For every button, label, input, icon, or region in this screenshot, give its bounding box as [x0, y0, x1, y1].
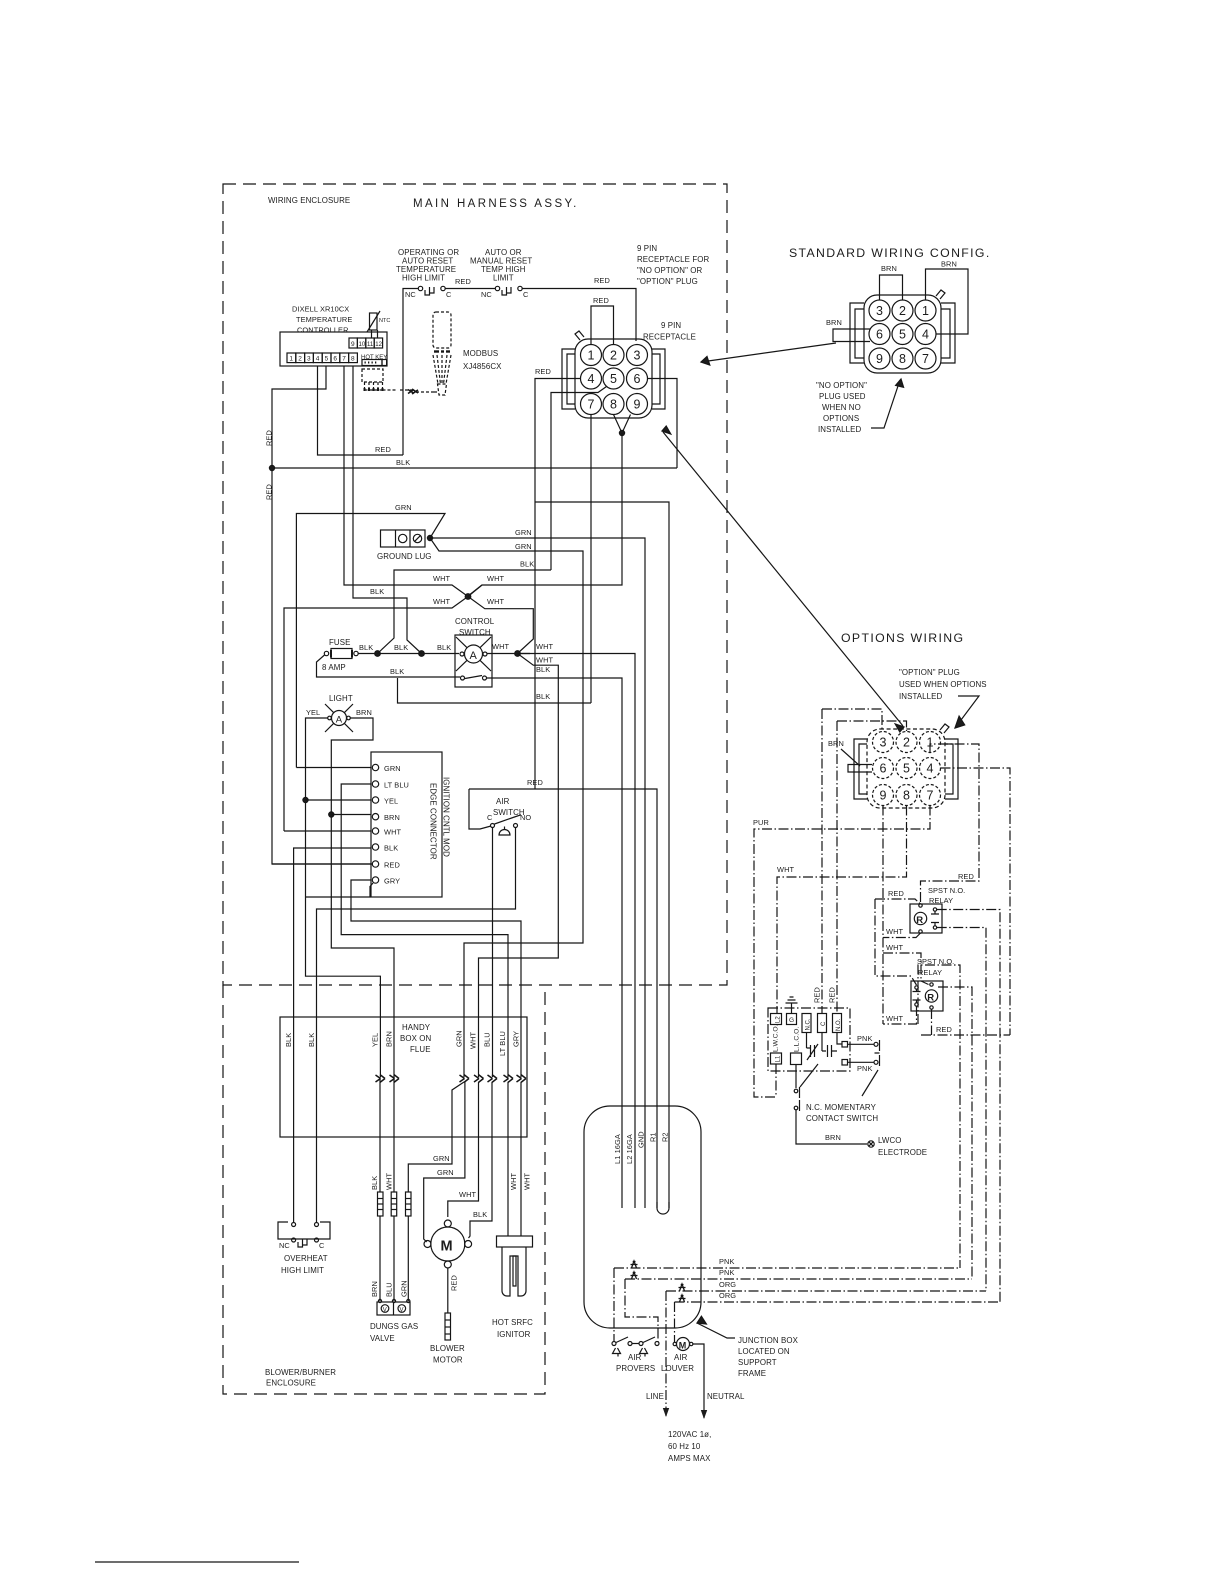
hot surface ignitor body — [497, 1236, 533, 1296]
wire dashed riser to pin2 — [837, 721, 907, 1014]
svg-text:2: 2 — [899, 304, 906, 318]
wire valve WHT lead lower — [393, 1216, 395, 1301]
svg-text:RED: RED — [527, 778, 543, 787]
svg-text:WHT: WHT — [536, 656, 554, 665]
svg-text:L.L.C.O.: L.L.C.O. — [794, 1027, 801, 1052]
svg-text:R2: R2 — [661, 1132, 670, 1142]
wire BRN jumper pins 3-2 — [880, 275, 903, 300]
svg-text:LOUVER: LOUVER — [661, 1364, 694, 1373]
junction node pins 8-9 — [619, 430, 624, 435]
svg-text:WHT: WHT — [886, 943, 904, 952]
leader junction box note — [697, 1316, 735, 1338]
svg-text:GRN: GRN — [515, 528, 532, 537]
svg-text:LT BLU: LT BLU — [498, 1031, 507, 1056]
svg-text:5: 5 — [899, 328, 906, 342]
wire air switch C down to BLU column — [492, 828, 494, 1077]
svg-text:HOT SRFC: HOT SRFC — [492, 1318, 533, 1327]
svg-text:PNK: PNK — [719, 1268, 735, 1277]
svg-text:WHT: WHT — [536, 642, 554, 651]
svg-text:BLK: BLK — [359, 643, 373, 652]
wire PNK top contact — [848, 1043, 874, 1045]
svg-text:R: R — [927, 992, 934, 1003]
svg-text:NC: NC — [405, 290, 416, 299]
wire left branch to K2 contact — [875, 899, 917, 985]
svg-text:BRN: BRN — [825, 1133, 841, 1142]
arrow NEUTRAL down — [701, 1410, 707, 1419]
wire node to L2 run (WHT) — [518, 654, 636, 1209]
wire GRN splice jog to valve column — [408, 1082, 464, 1192]
wire pin5 diagonal to drop — [551, 387, 607, 571]
svg-text:BLK: BLK — [536, 665, 550, 674]
svg-text:9: 9 — [876, 352, 883, 366]
svg-text:RED: RED — [384, 861, 400, 870]
svg-text:FLUE: FLUE — [410, 1045, 431, 1054]
svg-text:BLK: BLK — [384, 844, 398, 853]
LWCO L2 terminal — [771, 1014, 782, 1025]
svg-text:7: 7 — [922, 352, 929, 366]
svg-text:WHT: WHT — [459, 1190, 477, 1199]
momentary contact circles and actuator — [874, 1040, 880, 1066]
wire ORG2 run to louver — [675, 1302, 1001, 1342]
svg-text:BLK: BLK — [473, 1210, 487, 1219]
junction node b — [419, 651, 425, 657]
label OPERATING OR AUTO RESET TEMPERATURE HIGH LIMIT — [396, 248, 459, 283]
svg-text:M: M — [441, 1239, 453, 1255]
svg-text:GRN: GRN — [395, 503, 412, 512]
junction box R1-R2 loop — [657, 1208, 669, 1214]
wire L1 to PUR — [775, 1064, 777, 1097]
svg-text:CONTROL: CONTROL — [455, 617, 495, 626]
wire K2 coil bottom RED — [921, 1009, 1010, 1035]
svg-text:GRN: GRN — [384, 764, 401, 773]
svg-text:BRN: BRN — [370, 1281, 379, 1297]
splice connector valve BLK — [378, 1192, 384, 1216]
svg-text:2: 2 — [610, 349, 617, 363]
svg-text:PNK: PNK — [719, 1257, 735, 1266]
svg-text:120VAC 1ø,: 120VAC 1ø, — [668, 1430, 711, 1439]
svg-text:WHT: WHT — [384, 828, 402, 837]
wire WHT lower left to crossing — [284, 597, 468, 832]
wire valve BLK lead lower — [379, 1216, 381, 1301]
svg-text:C: C — [821, 1021, 827, 1026]
svg-text:WHT: WHT — [777, 865, 795, 874]
wire option pin1 RED to relay1 — [921, 744, 980, 904]
controller leads marks under connector — [365, 388, 383, 391]
svg-text:N.O.: N.O. — [836, 1018, 842, 1031]
ground symbol above G — [786, 997, 798, 1014]
svg-text:EDGE CONNECTOR: EDGE CONNECTOR — [429, 783, 438, 860]
junction box body — [584, 1106, 701, 1328]
svg-text:10: 10 — [359, 342, 366, 348]
svg-text:WHT: WHT — [492, 642, 510, 651]
wire PNK2 run — [625, 1279, 972, 1342]
svg-text:RED: RED — [958, 872, 974, 881]
svg-text:WHT: WHT — [523, 1172, 532, 1190]
svg-text:WHT: WHT — [433, 597, 451, 606]
svg-text:BLK: BLK — [284, 1033, 293, 1047]
svg-text:GRN: GRN — [433, 1154, 450, 1163]
svg-text:BLOWER/BURNER: BLOWER/BURNER — [265, 1368, 336, 1377]
svg-text:IGNITOR: IGNITOR — [497, 1330, 531, 1339]
svg-text:HIGH LIMIT: HIGH LIMIT — [402, 274, 445, 283]
svg-text:INSTALLED: INSTALLED — [899, 692, 942, 701]
LWCO N.O. terminal — [833, 1014, 842, 1033]
LWCO internal contacts — [807, 1033, 843, 1061]
wire option pin4 RED to relay2 — [941, 768, 1011, 1035]
wire GRY pin — [351, 880, 521, 1077]
plug P1 left bracket — [850, 303, 864, 363]
svg-text:4: 4 — [922, 328, 929, 342]
svg-text:STANDARD WIRING CONFIG.: STANDARD WIRING CONFIG. — [789, 246, 991, 260]
svg-text:BLK: BLK — [307, 1033, 316, 1047]
wire RED jumper pins 1-2 — [591, 306, 614, 345]
blower/burner enclosure dashed border — [223, 985, 545, 1394]
svg-text:FRAME: FRAME — [738, 1369, 766, 1378]
svg-text:BLU: BLU — [483, 1032, 492, 1047]
hot key connector — [361, 355, 387, 366]
svg-text:BLK: BLK — [536, 692, 550, 701]
wire node a up-over to BLU web — [378, 570, 552, 654]
svg-text:LT BLU: LT BLU — [384, 781, 409, 790]
wire crossing to pins8-9 run — [468, 585, 482, 597]
junction node a — [375, 651, 381, 657]
wire PNK1 run — [614, 1268, 960, 1342]
junction box wire labels vertical — [613, 1131, 670, 1164]
svg-text:"OPTION" PLUG: "OPTION" PLUG — [637, 277, 698, 286]
high limit switch S1 (operating/auto reset) — [405, 286, 452, 299]
svg-text:YEL: YEL — [371, 1033, 380, 1047]
control switch S3 body — [455, 635, 492, 687]
wire crossing lower right to switch node — [468, 597, 533, 654]
wire air switch NO to overheat right (BLK) — [317, 828, 516, 1223]
wire switch contact to L1 run (BLK) — [487, 678, 623, 1208]
svg-text:RED: RED — [535, 367, 551, 376]
svg-text:RED: RED — [375, 445, 391, 454]
controller programming connector (dashed) — [362, 369, 438, 392]
svg-text:N.C.: N.C. — [806, 1018, 812, 1030]
receptacle J1 left bracket — [562, 349, 575, 409]
svg-text:A: A — [336, 714, 343, 725]
svg-text:MOTOR: MOTOR — [433, 1356, 463, 1365]
wire light BRN side — [331, 718, 394, 1077]
svg-text:BRN: BRN — [385, 1031, 394, 1047]
splice connector valve GRN — [406, 1192, 412, 1216]
svg-text:BLK: BLK — [370, 587, 384, 596]
wire option pin7 PUR run — [754, 806, 930, 1098]
svg-text:HANDY: HANDY — [402, 1023, 431, 1032]
wire S2 C to receptacle pin3 (RED) — [522, 289, 636, 342]
svg-text:ENCLOSURE: ENCLOSURE — [266, 1379, 316, 1388]
svg-text:RED: RED — [594, 276, 610, 285]
label JUNCTION BOX LOCATED ON SUPPORT FRAME — [738, 1336, 799, 1378]
svg-text:RED: RED — [828, 987, 837, 1003]
svg-text:9 PIN: 9 PIN — [637, 244, 657, 253]
svg-text:GRY: GRY — [512, 1031, 521, 1047]
wire terminal8 to node b (BLK) — [353, 366, 422, 654]
9 pin receptacle J1 body — [575, 339, 652, 418]
wire K2 contact bottom WHT — [883, 1006, 917, 1024]
svg-text:DUNGS GAS: DUNGS GAS — [370, 1322, 418, 1331]
wire second ignitor lead — [520, 1082, 522, 1236]
svg-text:6: 6 — [634, 372, 641, 386]
splice connector motor RED — [445, 1313, 451, 1340]
air switch S4 — [487, 813, 531, 835]
wire lamp right to WHT node — [487, 653, 530, 655]
svg-text:RECEPTACLE: RECEPTACLE — [643, 333, 696, 342]
svg-text:1: 1 — [922, 304, 929, 318]
svg-text:G: G — [789, 1017, 794, 1024]
wire nut PNK1 — [631, 1261, 638, 1268]
svg-text:GND: GND — [637, 1131, 646, 1148]
svg-text:AIR: AIR — [628, 1353, 642, 1362]
wire PNK bottom contact — [848, 1061, 874, 1063]
LLCO probe switch — [794, 1064, 818, 1111]
svg-text:6: 6 — [876, 328, 883, 342]
svg-text:BRN: BRN — [828, 739, 844, 748]
svg-text:BRN: BRN — [826, 318, 842, 327]
label 120VAC 1ph 60 Hz 10 AMPS MAX — [668, 1430, 711, 1463]
wire junction down to WHT web — [468, 433, 622, 596]
air louver motor M2 — [673, 1338, 693, 1351]
option plug left bracket — [854, 739, 867, 799]
svg-text:AMPS MAX: AMPS MAX — [668, 1454, 711, 1463]
svg-text:BLK: BLK — [520, 560, 534, 569]
svg-text:5: 5 — [325, 356, 329, 363]
svg-text:HIGH LIMIT: HIGH LIMIT — [281, 1266, 324, 1275]
wire RED into K1 coil — [875, 899, 921, 904]
svg-text:GRN: GRN — [400, 1280, 409, 1297]
svg-text:OPTIONS WIRING: OPTIONS WIRING — [841, 631, 964, 645]
svg-text:CONTROLLER: CONTROLLER — [297, 326, 349, 335]
wire RED pin — [272, 863, 371, 865]
wire BRN node to edge connector — [331, 814, 371, 816]
svg-text:"OPTION" PLUG: "OPTION" PLUG — [899, 668, 960, 677]
svg-text:V: V — [383, 1307, 387, 1313]
wire S1 C to S2 NC (RED) — [445, 288, 495, 290]
handy box on flue body — [280, 1017, 527, 1137]
splice on modbus lead — [408, 389, 418, 394]
receptacle J1 keying tab — [575, 331, 584, 340]
wiring enclosure dashed border — [223, 184, 727, 985]
svg-text:BLK: BLK — [370, 1176, 379, 1190]
svg-text:BRN: BRN — [356, 708, 372, 717]
label "OPTION" PLUG USED WHEN OPTIONS INSTALLED — [899, 668, 987, 701]
wire terminal4 left to long RED drop — [272, 366, 373, 864]
ignition control module edge connector body — [371, 752, 442, 897]
wire GRN from controller area to lug — [296, 514, 445, 768]
svg-text:OVERHEAT: OVERHEAT — [284, 1254, 328, 1263]
LWCO electrode symbol — [868, 1141, 874, 1147]
svg-text:DIXELL XR10CX: DIXELL XR10CX — [292, 305, 349, 314]
svg-text:GRN: GRN — [455, 1030, 464, 1047]
wire dashed riser to pin3 — [822, 709, 882, 1014]
svg-text:LINE: LINE — [646, 1392, 664, 1401]
wire R2 from RED drop to junction box — [535, 502, 669, 1208]
receptacle J1 pins 1-9 — [581, 345, 648, 415]
svg-text:1: 1 — [588, 349, 595, 363]
svg-text:V: V — [400, 1307, 404, 1313]
svg-text:L.W.C.O.: L.W.C.O. — [773, 1024, 780, 1052]
wire K1 contact bottom to ORG1 drop — [937, 928, 986, 1292]
svg-text:GRN: GRN — [515, 542, 532, 551]
wire NC of S1 down to RED run — [403, 289, 418, 456]
svg-text:LIGHT: LIGHT — [329, 694, 353, 703]
LWCO G terminal — [787, 1014, 797, 1025]
wire GRN lug to GND drop — [430, 538, 645, 1208]
handy box wire labels vertical — [284, 1030, 521, 1056]
junction node YEL — [303, 797, 308, 802]
wire node diag to BLU column (WHT) — [479, 654, 559, 1078]
junction node BRN — [329, 812, 334, 817]
svg-text:MAIN HARNESS ASSY.: MAIN HARNESS ASSY. — [413, 198, 579, 210]
wire motor bottom RED to splice — [447, 1268, 449, 1313]
wire WHT column to motor left — [424, 1082, 465, 1242]
controller terminals 1-8 — [287, 353, 357, 363]
svg-text:12: 12 — [375, 342, 382, 348]
svg-text:USED WHEN OPTIONS: USED WHEN OPTIONS — [899, 680, 987, 689]
svg-text:BRN: BRN — [384, 813, 400, 822]
wire fuse to control switch with junction nodes — [358, 653, 459, 655]
double arrow receptacle to option plug — [662, 426, 904, 732]
wire BRN jumper pins 1-4 — [926, 269, 969, 334]
svg-text:RED: RED — [888, 889, 904, 898]
svg-text:LOCATED ON: LOCATED ON — [738, 1347, 790, 1356]
svg-text:1: 1 — [289, 356, 293, 363]
svg-text:SPST N.O.: SPST N.O. — [928, 886, 965, 895]
svg-text:8: 8 — [610, 398, 617, 412]
wire GRN pin — [296, 767, 371, 769]
svg-text:4: 4 — [927, 762, 934, 776]
svg-text:YEL: YEL — [306, 708, 320, 717]
svg-text:BLK: BLK — [396, 458, 410, 467]
control switch lamp — [456, 637, 491, 671]
svg-text:BLK: BLK — [390, 667, 404, 676]
svg-text:A: A — [470, 650, 478, 662]
wire pin4 left (RED) down to air switch feed — [535, 379, 581, 790]
wire LLCO to electrode BRN — [796, 1110, 867, 1144]
wire BLK pin to handy box — [294, 848, 371, 1223]
svg-text:RELAY: RELAY — [918, 968, 942, 977]
air provers switches — [612, 1337, 659, 1357]
svg-text:HOT KEY: HOT KEY — [361, 355, 387, 361]
relay K1 SPST N.O. — [910, 904, 942, 933]
svg-text:NTC: NTC — [379, 318, 390, 324]
plug P1 pins 3,2,1,6,5,4,9,8,7 — [869, 300, 936, 369]
LWCO terminal block body (dash-dot) — [768, 1008, 850, 1071]
svg-text:7: 7 — [927, 789, 934, 803]
svg-text:INSTALLED: INSTALLED — [818, 425, 861, 434]
wire WHT link K1-K2 — [883, 953, 929, 985]
thermistor NTC — [367, 311, 390, 338]
svg-text:3: 3 — [876, 304, 883, 318]
svg-text:WHT: WHT — [487, 574, 505, 583]
wire BLK lower run to pin7 (BLK) — [398, 678, 592, 703]
svg-text:R1: R1 — [649, 1132, 658, 1142]
svg-text:RED: RED — [813, 987, 822, 1003]
svg-text:XJ4856CX: XJ4856CX — [463, 362, 502, 371]
wire louver to NEUTRAL — [693, 1344, 704, 1418]
plug P1 right bracket — [941, 303, 955, 363]
wire YEL node to edge connector — [306, 799, 372, 801]
svg-text:5: 5 — [610, 372, 617, 386]
svg-text:7: 7 — [588, 398, 595, 412]
LWCO LLCO terminal — [791, 1053, 802, 1065]
svg-text:9: 9 — [634, 398, 641, 412]
svg-text:WHT: WHT — [487, 597, 505, 606]
standard config plug P1 body — [864, 295, 941, 373]
dungs gas valve terminal strip — [377, 1299, 410, 1315]
svg-text:8: 8 — [903, 789, 910, 803]
indicator light DS1 — [325, 704, 353, 732]
svg-text:6: 6 — [880, 762, 887, 776]
svg-text:WHT: WHT — [886, 927, 904, 936]
svg-text:3: 3 — [880, 736, 887, 750]
leader option note to plug — [955, 696, 979, 728]
svg-text:MODBUS: MODBUS — [463, 349, 498, 358]
svg-text:5: 5 — [903, 762, 910, 776]
svg-text:LWCO: LWCO — [878, 1136, 902, 1145]
svg-text:C: C — [523, 290, 529, 299]
wire pins 8-9 to junction node — [614, 415, 631, 434]
svg-text:WIRING ENCLOSURE: WIRING ENCLOSURE — [268, 196, 350, 205]
svg-text:BLK: BLK — [394, 643, 408, 652]
svg-text:NC: NC — [481, 290, 492, 299]
wire K1 contact top to ORG2 drop — [937, 910, 1000, 1303]
ground lug body — [381, 530, 426, 547]
svg-text:BOX ON: BOX ON — [400, 1034, 431, 1043]
wire LT BLU pin to GRY drop — [341, 784, 508, 1077]
svg-text:"NO OPTION" OR: "NO OPTION" OR — [637, 266, 703, 275]
svg-text:AIR: AIR — [496, 797, 510, 806]
modbus connector XJ4856CX — [433, 312, 451, 395]
svg-text:RED: RED — [936, 1025, 952, 1034]
svg-text:GRN: GRN — [437, 1168, 454, 1177]
blower motor M1 — [424, 1220, 472, 1268]
svg-text:L2: L2 — [776, 1016, 782, 1023]
svg-text:SUPPORT: SUPPORT — [738, 1358, 777, 1367]
wire pin7 down — [590, 415, 592, 704]
svg-text:PROVERS: PROVERS — [616, 1364, 655, 1373]
svg-text:C: C — [319, 1241, 325, 1250]
wire BRN pigtail at option pin 6 — [848, 765, 872, 773]
svg-text:RED: RED — [450, 1275, 459, 1291]
junction node at lug — [427, 535, 432, 540]
arrow LINE down — [663, 1408, 669, 1417]
svg-text:PLUG USED: PLUG USED — [819, 392, 866, 401]
svg-text:3: 3 — [634, 349, 641, 363]
svg-text:OPTIONS: OPTIONS — [823, 414, 859, 423]
svg-text:N.C. MOMENTARY: N.C. MOMENTARY — [806, 1103, 877, 1112]
svg-text:RED: RED — [265, 484, 274, 500]
svg-text:2: 2 — [298, 356, 302, 363]
svg-text:YEL: YEL — [384, 797, 398, 806]
svg-text:GRY: GRY — [384, 877, 400, 886]
svg-text:JUNCTION BOX: JUNCTION BOX — [738, 1336, 799, 1345]
svg-text:C: C — [446, 290, 452, 299]
wire BLU column to motor top — [448, 1082, 479, 1217]
svg-text:BLOWER: BLOWER — [430, 1344, 465, 1353]
svg-text:L2 16GA: L2 16GA — [625, 1134, 634, 1164]
svg-text:IGNITION CNTL MOD: IGNITION CNTL MOD — [442, 777, 451, 857]
wire pin6 right down to BLK run — [648, 379, 678, 469]
LWCO C terminal — [818, 1014, 827, 1033]
option plug pins 3,2,1,6,5,4,9,8,7 (dashed) — [873, 732, 941, 806]
wire K2 coil top to PNK2 drop — [938, 987, 972, 1279]
label HANDY BOX ON FLUE — [400, 1023, 431, 1054]
svg-text:9: 9 — [880, 789, 887, 803]
svg-text:SWITCH: SWITCH — [493, 808, 525, 817]
wire valve GRN lead lower — [407, 1216, 409, 1301]
